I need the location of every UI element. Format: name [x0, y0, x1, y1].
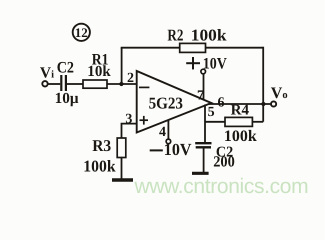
wire R4 to output node — [252, 121, 263, 123]
resistor R3 100k — [83, 136, 125, 175]
capacitor C2 (output) 200 — [195, 143, 235, 170]
pin 3 wire — [122, 124, 137, 138]
output terminal Vo — [271, 85, 288, 107]
node B output junction — [261, 102, 265, 106]
node A junction R1/R2/pin2 — [119, 82, 123, 86]
svg-text:5: 5 — [208, 105, 215, 120]
svg-text:4: 4 — [159, 125, 166, 140]
svg-text:R3: R3 — [92, 136, 111, 155]
svg-text:6: 6 — [218, 96, 225, 111]
input terminal Vi — [40, 64, 54, 86]
wire Vi to C2 — [48, 83, 61, 85]
ground for C2 — [192, 172, 209, 175]
wire R3 to ground — [121, 158, 123, 179]
wire feedback right vertical down to R4 — [262, 47, 264, 122]
svg-text:7: 7 — [197, 89, 204, 104]
resistor R2 100k — [167, 26, 227, 53]
wire C2 to R1 — [67, 83, 83, 85]
svg-text:200: 200 — [213, 154, 235, 171]
svg-text:C2: C2 — [57, 60, 74, 77]
-10V supply terminal — [150, 139, 192, 159]
resistor R1 10k — [83, 52, 111, 89]
output wire pin 6 — [209, 103, 271, 105]
wire feedback left vertical — [121, 48, 123, 84]
resistor R4 100k — [224, 103, 257, 145]
op-amp U1 5G23 — [137, 71, 212, 133]
svg-text:100k: 100k — [224, 128, 257, 145]
svg-text:3: 3 — [125, 112, 132, 127]
svg-text:R4: R4 — [231, 103, 250, 119]
svg-text:10k: 10k — [87, 63, 111, 80]
figure number 12 — [73, 24, 90, 41]
svg-text:R2: R2 — [167, 26, 183, 45]
+10V supply terminal — [186, 56, 227, 74]
svg-text:10V: 10V — [164, 140, 192, 159]
wire pin5 to R4 — [205, 121, 225, 123]
pin 7 wire — [203, 74, 205, 99]
ground for R3 — [112, 178, 133, 181]
pin 4 wire — [167, 120, 169, 139]
svg-text:10μ: 10μ — [55, 90, 79, 107]
svg-text:100k: 100k — [83, 156, 116, 175]
wire feedback top horizontal — [121, 47, 264, 49]
svg-text:100k: 100k — [191, 26, 228, 45]
pin 5 wire down from op-amp — [204, 105, 206, 143]
svg-text:10V: 10V — [203, 56, 227, 73]
svg-text:12: 12 — [75, 25, 88, 40]
wire R1 to op-amp pin 2 — [107, 83, 137, 85]
wire C2 to ground — [203, 149, 205, 173]
svg-text:www.cntronics.com: www.cntronics.com — [134, 175, 309, 198]
capacitor C2 (input) 10u — [55, 60, 79, 107]
svg-text:2: 2 — [127, 71, 134, 86]
svg-text:5G23: 5G23 — [149, 93, 183, 112]
